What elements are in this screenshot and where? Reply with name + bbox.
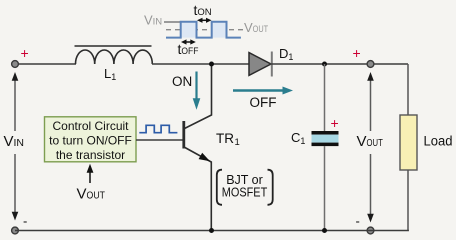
BJT or MOSFET bracket left: [217, 170, 222, 205]
load branch lower wire: [407, 170, 409, 231]
junction collector-top: [209, 62, 214, 67]
node terminal top-right: [367, 61, 374, 68]
capacitor C1: [312, 131, 339, 146]
svg-text:-: -: [23, 214, 27, 229]
node terminal bottom-left: [12, 227, 19, 234]
top wire middle segment: [152, 63, 249, 65]
control feedback arrow: [87, 164, 94, 183]
waveform dashed mid line: [166, 29, 247, 31]
svg-text:+: +: [21, 45, 29, 61]
bottom wire: [15, 230, 409, 232]
waveform square wave trace: [166, 22, 241, 38]
BJT or MOSFET bracket right: [268, 170, 273, 205]
load R_L: [400, 115, 417, 170]
svg-text:+: +: [353, 45, 361, 61]
capacitor branch upper wire: [324, 64, 326, 131]
svg-text:Control Circuit: Control Circuit: [52, 119, 129, 133]
waveform Vin level line: [164, 21, 181, 23]
svg-text:+: +: [331, 115, 339, 131]
transistor TR1: [184, 64, 212, 231]
junction capacitor-bottom: [322, 228, 327, 233]
BJT or MOSFET text: [222, 173, 268, 200]
svg-text:Load: Load: [424, 134, 453, 149]
node terminal bottom-right: [367, 227, 374, 234]
base drive wire: [136, 139, 183, 141]
OFF arrow: [233, 87, 293, 95]
t_ON arrow: [197, 18, 212, 23]
svg-text:MOSFET: MOSFET: [222, 186, 268, 200]
svg-text:OFF: OFF: [250, 95, 277, 110]
ON arrow: [193, 72, 201, 110]
svg-text:-: -: [356, 214, 360, 229]
control circuit box U1: [45, 117, 137, 162]
load branch upper wire: [407, 64, 409, 115]
node + terminal top-left: [12, 61, 19, 68]
gate pulse symbol: [139, 125, 177, 132]
svg-text:to turn ON/OFF: to turn ON/OFF: [49, 133, 132, 147]
diode D1: [249, 52, 272, 77]
capacitor branch lower wire: [324, 146, 326, 230]
emitter arrowhead: [199, 153, 210, 162]
V_IN voltage arrow upper: [12, 72, 19, 131]
top wire right segment: [271, 63, 408, 65]
svg-text:the transistor: the transistor: [56, 148, 125, 162]
V_IN voltage arrow lower: [12, 154, 19, 221]
t_OFF arrow: [181, 39, 196, 44]
V_OUT voltage arrow lower: [367, 154, 374, 223]
inductor L1: [75, 46, 153, 64]
top wire left segment: [15, 63, 76, 65]
control circuit box text: [49, 119, 132, 162]
waveform square wave fill: [166, 22, 241, 38]
V_OUT voltage arrow upper: [367, 72, 374, 131]
junction emitter-bottom: [209, 228, 214, 233]
svg-text:ON: ON: [172, 74, 192, 89]
junction diode-cathode: [322, 62, 327, 67]
